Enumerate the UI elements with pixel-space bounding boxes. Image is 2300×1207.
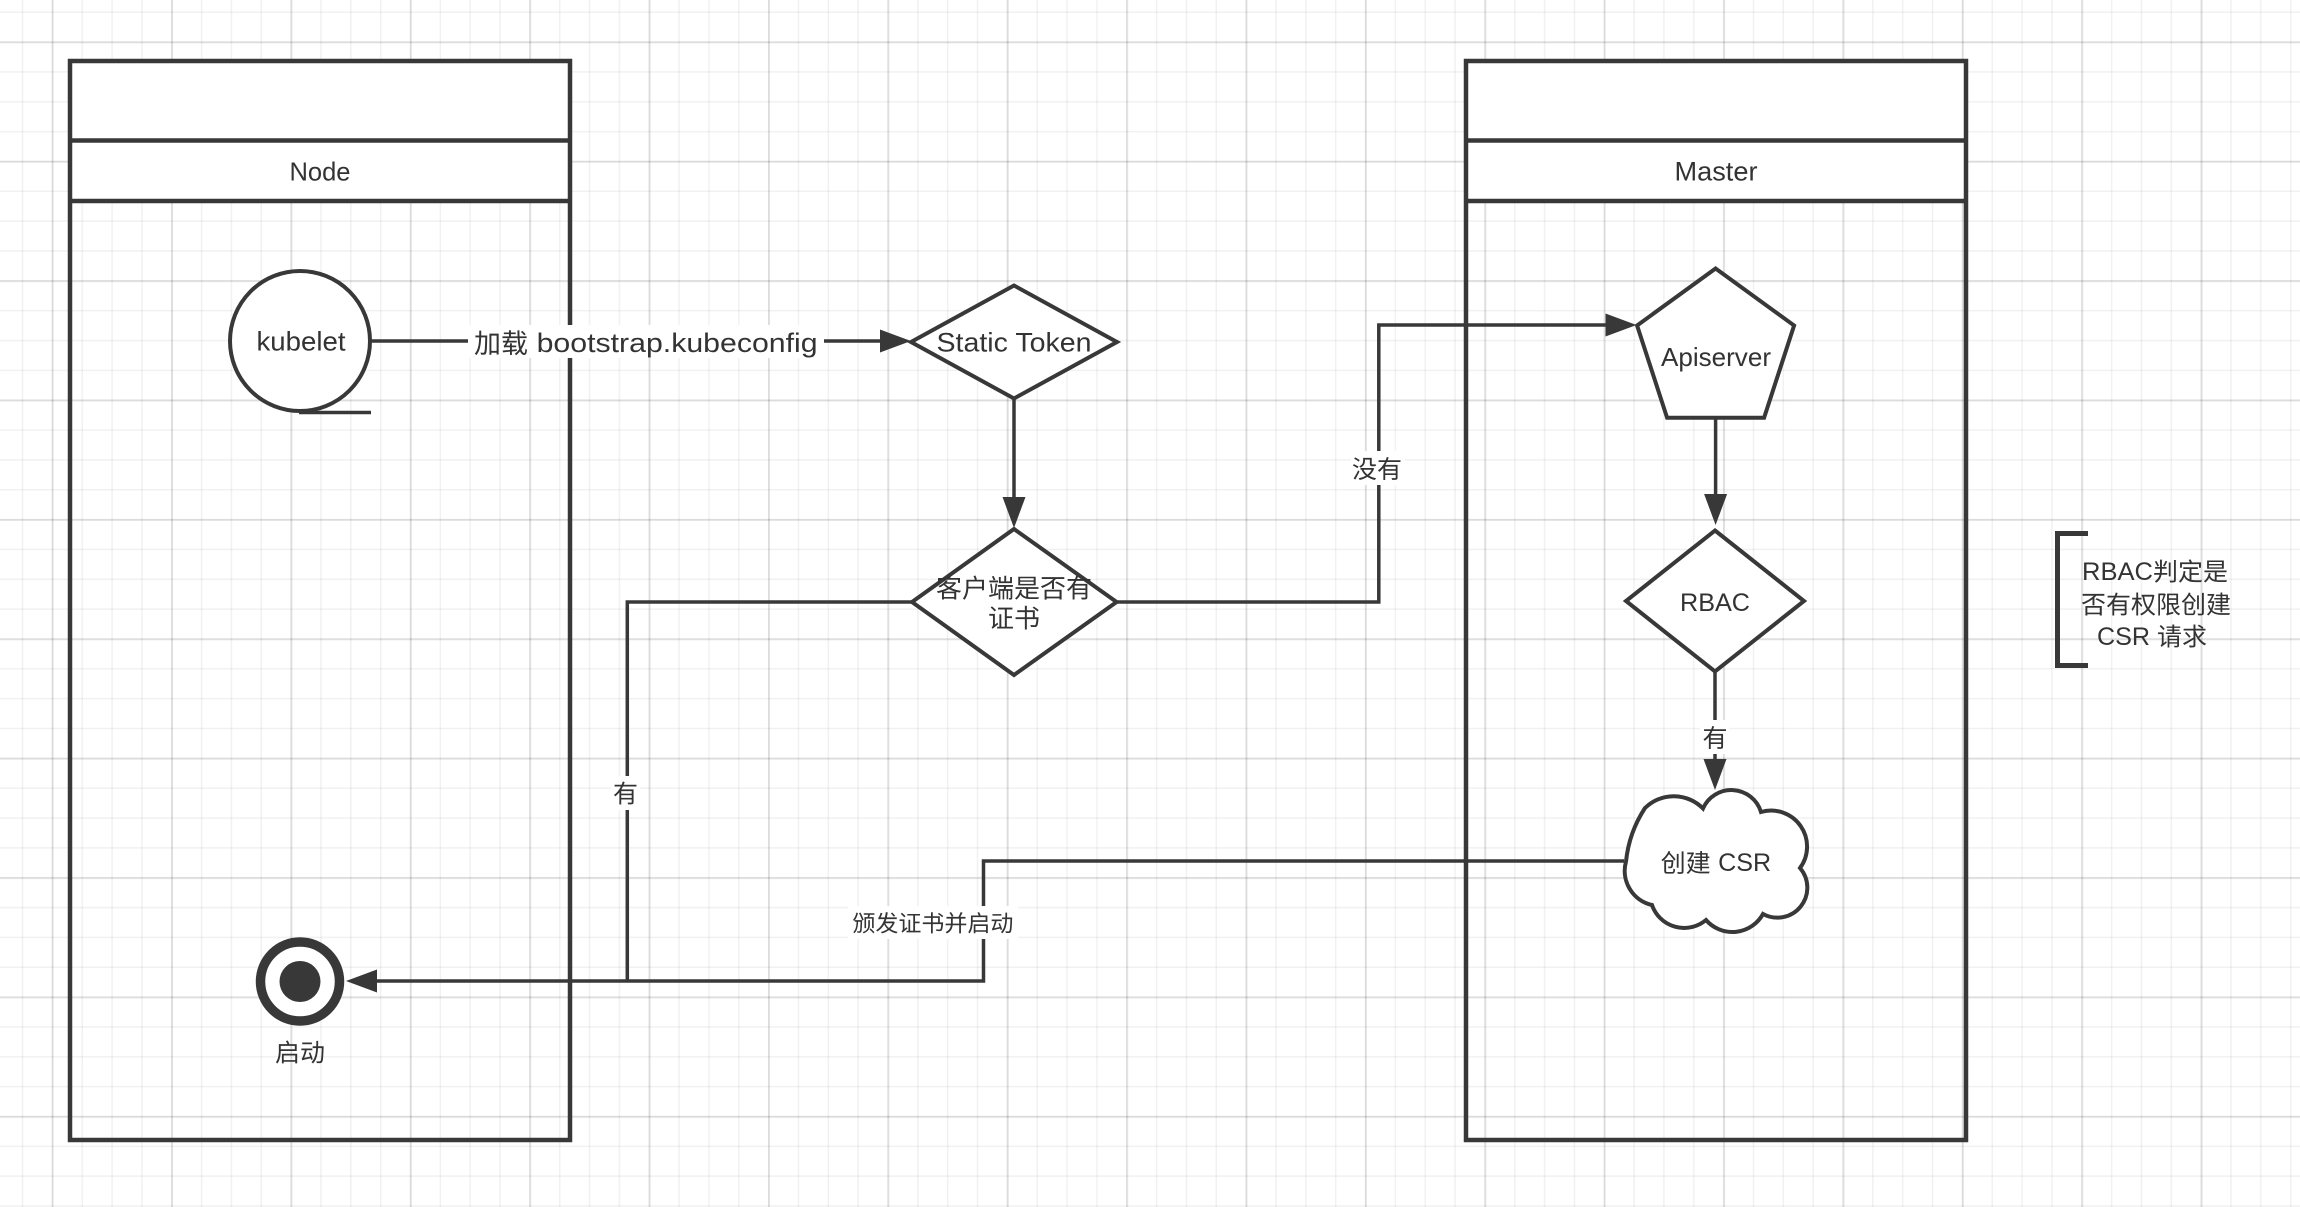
svg-text:Apiserver: Apiserver	[1661, 342, 1771, 372]
svg-text:RBAC: RBAC	[1680, 589, 1750, 617]
svg-text:CSR: CSR	[2097, 623, 2150, 651]
svg-text:CSR: CSR	[1718, 849, 1771, 877]
svg-text:RBAC: RBAC	[2082, 558, 2153, 586]
svg-text:kubelet: kubelet	[257, 327, 346, 357]
svg-text:Static Token: Static Token	[937, 328, 1092, 358]
svg-text:Master: Master	[1675, 157, 1758, 187]
svg-text:bootstrap.kubeconfig: bootstrap.kubeconfig	[537, 328, 818, 358]
svg-text:Node: Node	[290, 157, 351, 187]
